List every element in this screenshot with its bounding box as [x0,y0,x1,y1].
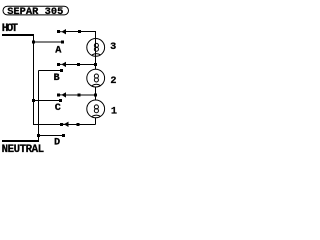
svg-text:1: 1 [111,106,117,117]
svg-text:NEUTRAL: NEUTRAL [2,144,45,156]
svg-text:C: C [55,103,61,114]
svg-text:A: A [55,46,62,57]
svg-text:D: D [54,138,60,149]
svg-text:B: B [54,73,60,84]
svg-text:3: 3 [110,42,116,53]
svg-text:HOT: HOT [2,23,19,35]
svg-text:2: 2 [110,76,116,87]
svg-text:SEPAR 305: SEPAR 305 [7,6,63,18]
